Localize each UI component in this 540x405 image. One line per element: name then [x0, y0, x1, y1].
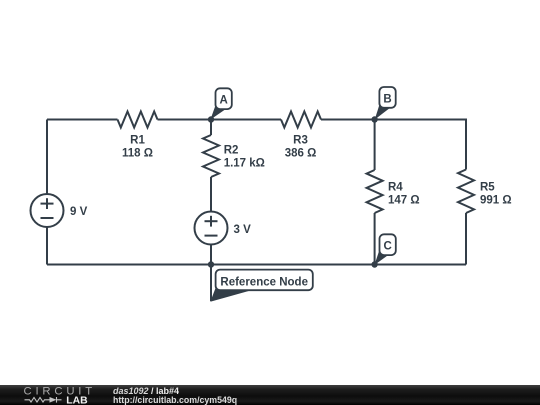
resistor R4	[367, 170, 420, 213]
svg-text:147 Ω: 147 Ω	[388, 194, 420, 206]
svg-text:R5: R5	[480, 181, 495, 193]
svg-text:R3: R3	[293, 135, 308, 147]
footer bar	[0, 385, 540, 405]
svg-text:386 Ω: 386 Ω	[285, 148, 317, 160]
reference node flag	[210, 270, 312, 302]
svg-text:3 V: 3 V	[234, 224, 252, 236]
wire reference stub below 3V junction	[210, 265, 212, 302]
resistor R1	[118, 112, 158, 160]
junction node C	[371, 261, 377, 267]
voltage source V2 3V	[195, 212, 252, 245]
junction 3V bottom	[208, 261, 214, 267]
svg-text:B: B	[383, 93, 391, 105]
resistor R3	[281, 112, 321, 160]
footer text line 1	[113, 387, 179, 396]
node B flag	[375, 87, 396, 120]
svg-text:9 V: 9 V	[70, 206, 88, 218]
svg-text:R2: R2	[224, 145, 239, 157]
circuitlab logo	[0, 385, 110, 405]
voltage source V1 9V	[31, 194, 88, 227]
wire R2 to 3V source	[210, 177, 212, 212]
resistor R2	[203, 135, 265, 177]
svg-text:1.17 kΩ: 1.17 kΩ	[224, 158, 265, 170]
wire left vertical top (to 9V source)	[46, 120, 48, 195]
node C flag	[374, 234, 395, 265]
svg-text:LAB: LAB	[66, 395, 88, 405]
svg-text:R4: R4	[388, 181, 403, 193]
wire left vertical bottom	[46, 227, 48, 265]
wire node B down to R4	[374, 120, 376, 171]
node A flag	[210, 88, 231, 119]
svg-text:A: A	[220, 95, 228, 107]
junction node B	[371, 116, 377, 122]
svg-text:991 Ω: 991 Ω	[480, 194, 512, 206]
svg-text:Reference Node: Reference Node	[220, 276, 308, 288]
wire node A to R3	[211, 119, 281, 121]
footer text line 2	[113, 396, 237, 405]
junction node A	[208, 116, 214, 122]
wire node A down to R2	[210, 120, 212, 136]
wire bottom horizontal	[47, 264, 466, 266]
svg-text:C: C	[384, 241, 392, 253]
wire R5 to bottom-right corner	[465, 213, 467, 265]
wire R4 to node C	[374, 213, 376, 265]
svg-text:118 Ω: 118 Ω	[122, 148, 153, 160]
wire 3V source to bottom wire	[210, 245, 212, 265]
resistor R5	[458, 170, 512, 214]
wire node B to top-right corner and down right side	[375, 120, 466, 170]
wire top-left horizontal lead	[47, 119, 118, 121]
svg-text:R1: R1	[130, 135, 145, 147]
wire R3 to node B	[321, 119, 375, 121]
wire R1 to node A	[158, 119, 212, 121]
